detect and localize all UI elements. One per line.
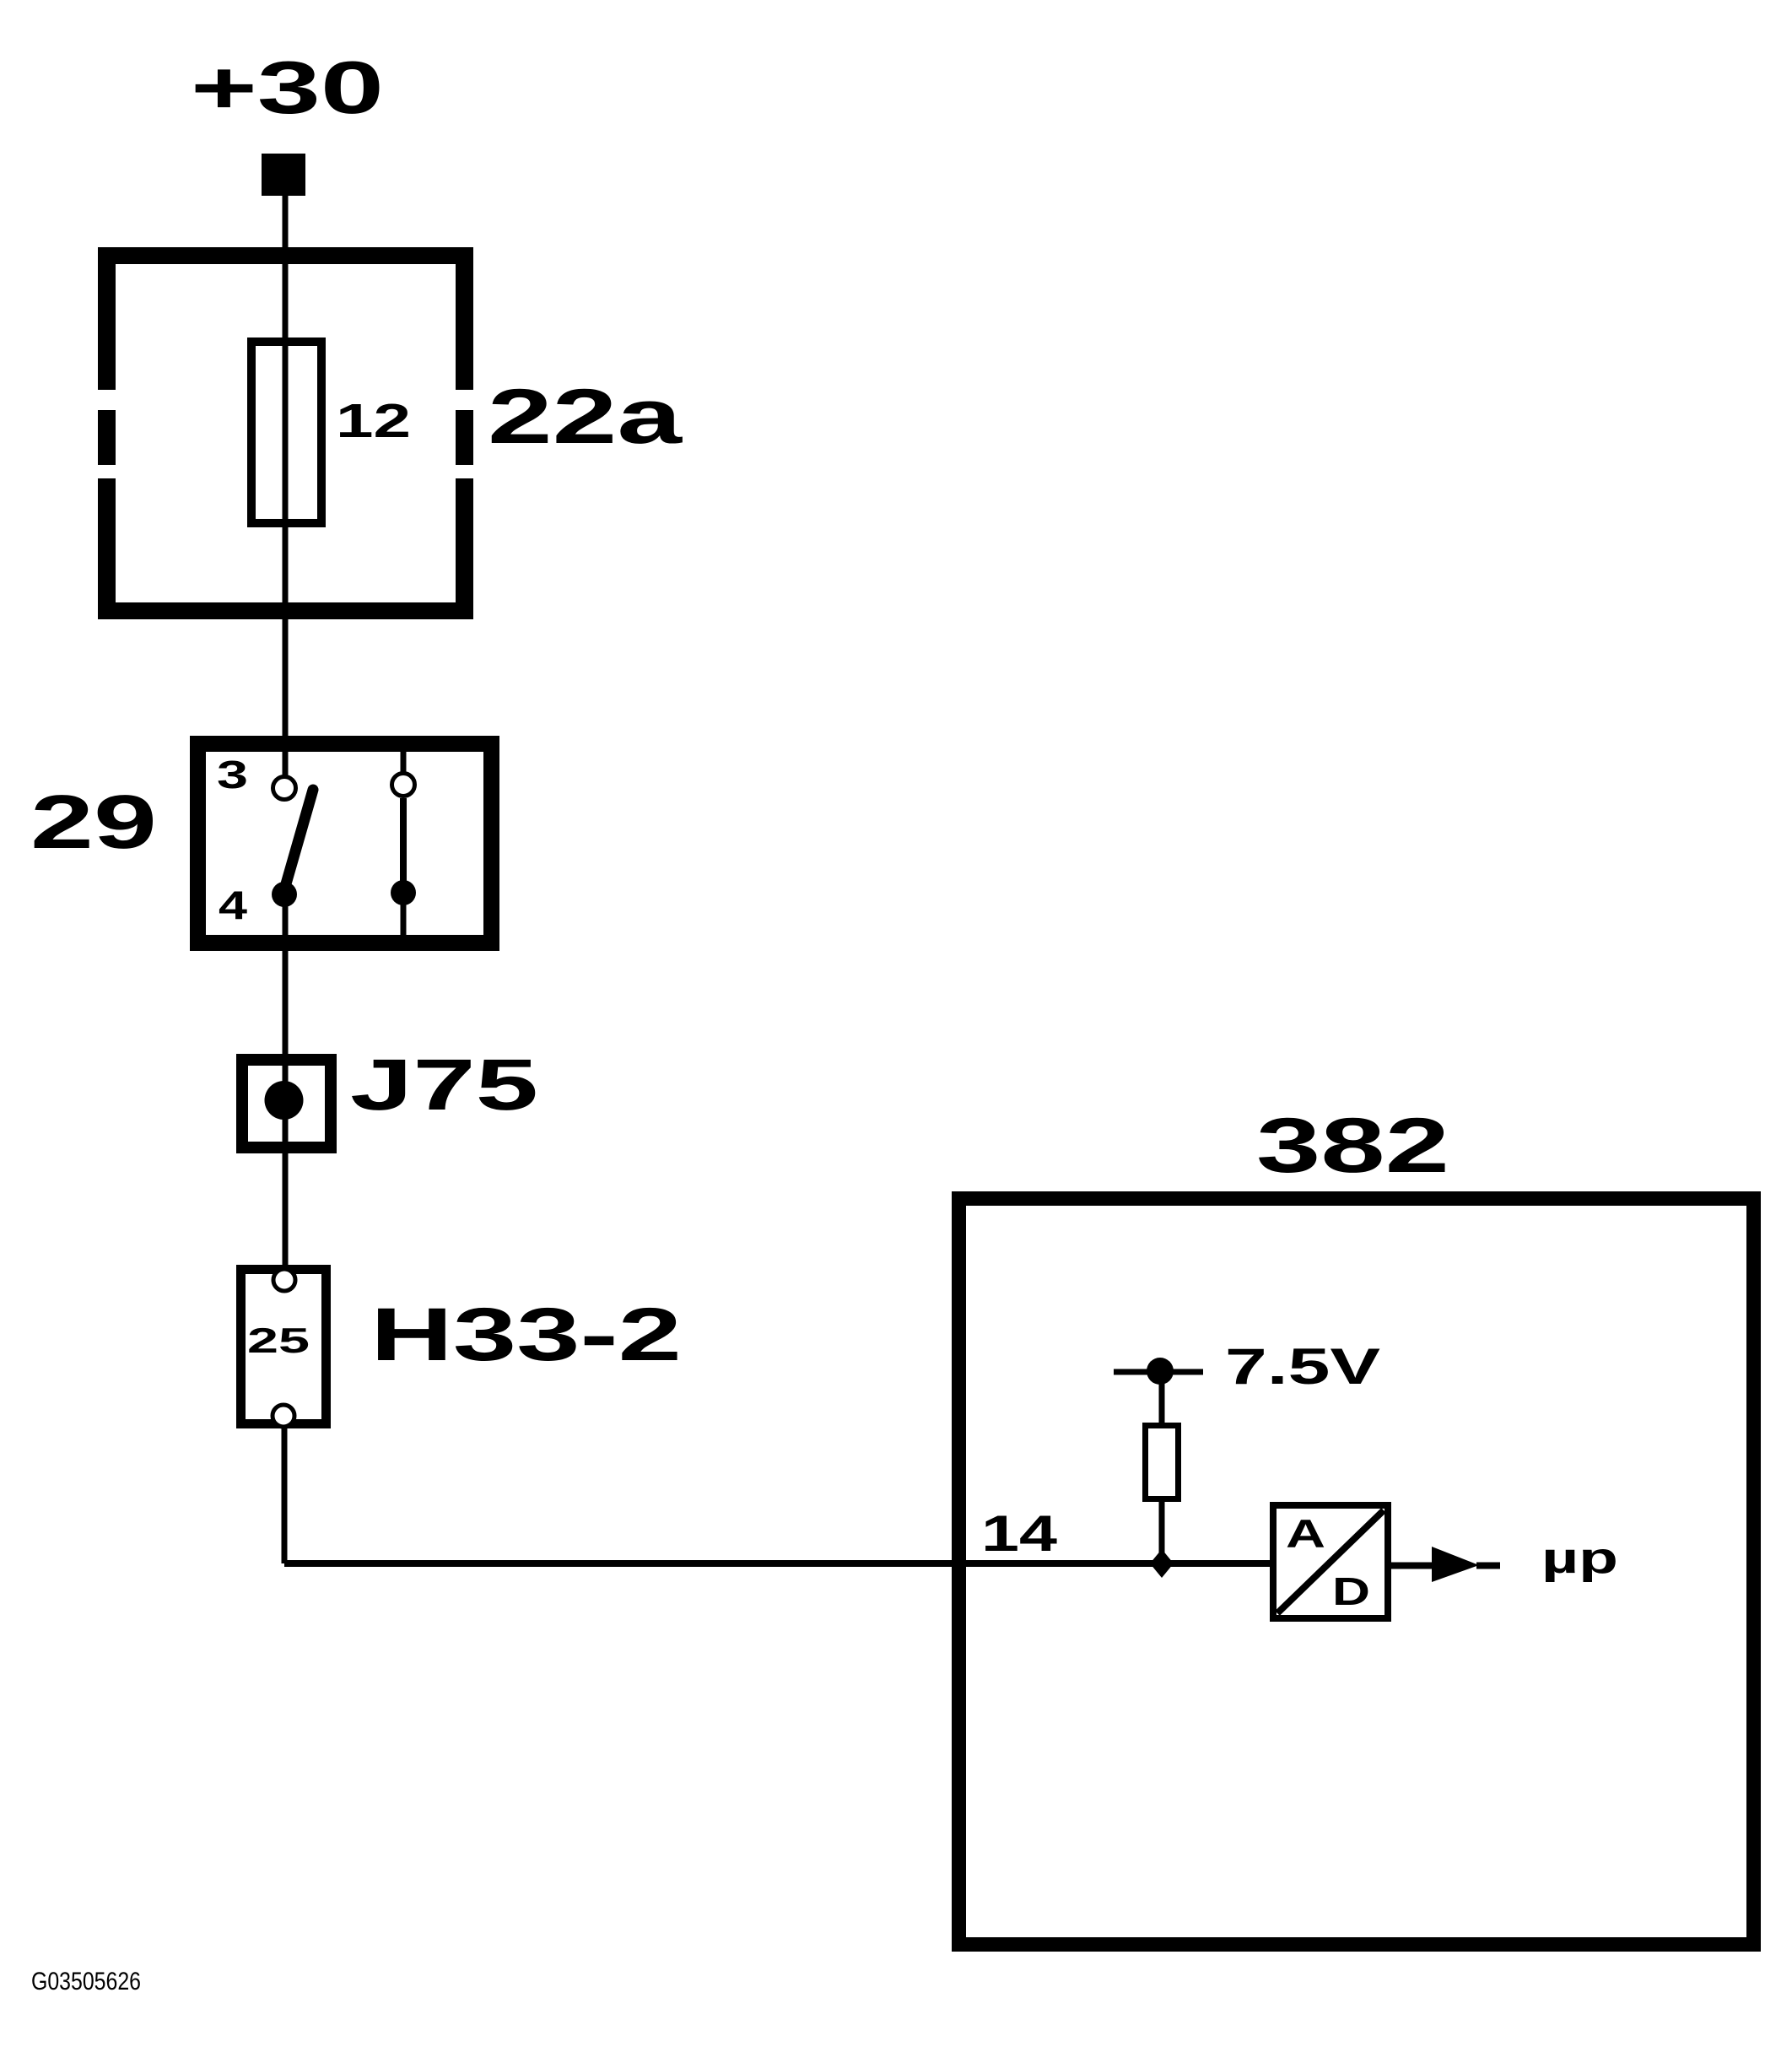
wire from 7.5V dot to resistor [1159,1371,1165,1425]
svg-text:12: 12 [336,394,411,448]
H33-2 top pin circle [273,1269,295,1291]
svg-text:µp: µp [1541,1534,1618,1583]
svg-text:25: 25 [247,1320,310,1360]
connector H33-2 body [241,1270,327,1424]
contact 4 dot [272,882,297,907]
terminal +30 square [262,154,305,196]
svg-text:H33-2: H33-2 [370,1292,682,1376]
wire from H33-2 down and right to module 382 pin 14 [284,1427,1273,1567]
a/d converter U1 box [1273,1505,1388,1618]
wire from switch to J75 and H33-2 [283,894,289,1267]
wire from resistor to node [1159,1499,1165,1553]
svg-text:J75: J75 [350,1045,538,1126]
node junction diamond [1150,1549,1174,1578]
wire: right contact upper lead [401,741,407,773]
H33-2 bottom pin circle [273,1405,294,1427]
a/d diagonal [1277,1510,1384,1613]
switch lever [283,790,313,893]
arrowhead to microprocessor [1432,1547,1479,1582]
7.5V rail dot [1147,1358,1174,1385]
right contact dot [391,880,416,905]
switch box 29 border [198,744,492,943]
svg-text:29: 29 [30,780,157,865]
right contact bar [400,798,407,893]
svg-text:382: 382 [1256,1103,1449,1189]
svg-text:7.5V: 7.5V [1225,1338,1380,1395]
svg-text:D: D [1332,1569,1370,1613]
fuse box 22a: right edge segments [456,247,473,390]
control module 382 border [959,1199,1754,1945]
wire: right contact lower lead [401,893,407,938]
svg-text:4: 4 [219,883,247,927]
svg-text:22a: 22a [488,374,683,460]
right contact open circle [392,774,415,796]
svg-text:+30: +30 [191,46,384,129]
wire from a/d to arrow [1388,1563,1433,1569]
fuse F12 body [251,342,321,523]
pull-up resistor body [1146,1426,1179,1499]
fuse box 22a: bottom edge [98,602,473,619]
7.5V rail line [1114,1369,1203,1375]
junction box J75 [242,1060,331,1147]
wire after arrowhead [1476,1563,1500,1569]
fuse box 22a dashed border: top edge [98,247,473,264]
svg-text:3: 3 [217,753,248,796]
svg-text:14: 14 [981,1505,1058,1562]
wire: contact 3 upper lead [283,741,289,776]
junction J75 dot [265,1081,304,1120]
svg-text:G03505626: G03505626 [31,1968,141,1995]
wire from +30 terminal through fuse to switch box [283,196,289,736]
fuse box 22a: left edge segments [98,247,116,390]
svg-text:A: A [1286,1511,1325,1556]
contact 3 open circle [273,777,296,800]
